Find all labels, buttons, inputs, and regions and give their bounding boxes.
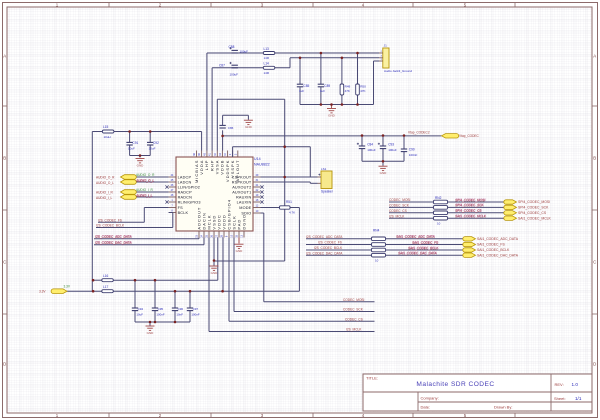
wire pin VDDB up through C86: [222, 130, 224, 150]
svg-text:SAI1_CODEC_ADC_DATA: SAI1_CODEC_ADC_DATA: [397, 235, 436, 239]
svg-text:SAI1_CODEC_FS: SAI1_CODEC_FS: [413, 240, 439, 244]
svg-text:C95: C95: [158, 307, 164, 311]
svg-text:14R: 14R: [264, 71, 270, 75]
svg-text:CODEC_SCK: CODEC_SCK: [343, 308, 364, 312]
capacitor C90: [401, 147, 418, 157]
label CODEC_MOSI: [343, 298, 365, 302]
svg-text:100nF: 100nF: [156, 312, 164, 316]
wire PAD to GND: [238, 238, 240, 244]
svg-text:AUDIO_O_L: AUDIO_O_L: [96, 181, 114, 185]
svg-text:C91: C91: [132, 141, 138, 145]
resistor network RN2: [434, 196, 448, 226]
svg-text:14R: 14R: [264, 56, 270, 60]
svg-text:AUDIO_I_L: AUDIO_I_L: [137, 193, 154, 197]
ground GND under C91 C92: [136, 159, 145, 168]
svg-text:2: 2: [229, 153, 232, 155]
svg-text:C94: C94: [138, 307, 144, 311]
capacitor C88: [229, 45, 249, 54]
ground GND bottom caps: [146, 326, 155, 335]
svg-text:100uF: 100uF: [230, 72, 239, 76]
svg-text:L17: L17: [103, 285, 109, 289]
capacitor C84: [357, 142, 376, 152]
label I2S_MCLK: [346, 328, 362, 332]
capacitor C97: [187, 307, 200, 317]
svg-text:1/1: 1/1: [575, 396, 582, 401]
svg-text:RAUXIN: RAUXIN: [236, 195, 252, 199]
svg-text:NAU8822: NAU8822: [254, 162, 270, 166]
svg-text:3.3V: 3.3V: [64, 284, 71, 288]
svg-text:B: B: [593, 156, 596, 161]
svg-text:24: 24: [201, 234, 204, 237]
wire CODEC_CS route: [229, 238, 375, 322]
svg-text:C89: C89: [324, 84, 330, 88]
wire RSPKOUT to speaker: [261, 182, 318, 183]
resistor network RN4: [372, 229, 386, 263]
svg-text:4.7K: 4.7K: [289, 211, 295, 215]
wire Vtap net y135.9: [223, 135, 442, 137]
svg-text:C90: C90: [409, 147, 415, 151]
labels CODEC SPI left of RN2: [389, 198, 434, 218]
svg-text:C97: C97: [193, 307, 199, 311]
svg-text:23: 23: [196, 234, 199, 237]
wire VSSD pin down to y261: [213, 238, 215, 266]
svg-text:100uF: 100uF: [388, 148, 397, 152]
capacitor C94: [132, 307, 144, 317]
svg-text:AUDIO_O_L: AUDIO_O_L: [137, 178, 155, 182]
wire cap C85 stem: [299, 58, 301, 84]
wire Vtap cap ground rail: [362, 160, 404, 162]
label Vtap_CODEC right: [459, 134, 480, 138]
svg-text:I2S_CODEC_FS: I2S_CODEC_FS: [98, 218, 122, 222]
wire C92 stem: [149, 132, 151, 156]
svg-text:26: 26: [211, 234, 214, 237]
svg-text:10: 10: [231, 234, 234, 237]
wire y58 to audio jack pin2: [290, 57, 379, 59]
svg-text:C93: C93: [388, 142, 394, 146]
svg-text:L13: L13: [264, 47, 270, 51]
capacitor C87: [219, 62, 238, 77]
svg-text:SPI4_CODEC_MOSI: SPI4_CODEC_MOSI: [518, 200, 550, 204]
svg-text:LAUXIN: LAUXIN: [237, 200, 252, 204]
wire MODE to R51: [261, 207, 300, 209]
svg-text:GND: GND: [236, 249, 244, 253]
svg-text:CODEC_MOSI: CODEC_MOSI: [343, 298, 365, 302]
wire VDDD pin down: [222, 238, 224, 292]
svg-text:SAI1_CODEC_ADC_DATA: SAI1_CODEC_ADC_DATA: [477, 237, 519, 241]
svg-text:VDDA: VDDA: [199, 160, 204, 175]
svg-text:LADCN: LADCN: [178, 180, 192, 184]
wire cap C89 bottom: [320, 87, 322, 104]
ground GND near C86: [244, 120, 253, 129]
svg-text:I2S_MCLK: I2S_MCLK: [346, 328, 362, 332]
inductor L16: [102, 274, 114, 282]
svg-text:100nF: 100nF: [409, 153, 418, 157]
svg-text:RN2: RN2: [435, 196, 442, 200]
svg-text:FS: FS: [178, 206, 183, 210]
wire cap C89 stem: [320, 53, 322, 84]
wire AUDIO_O_L: [134, 181, 169, 183]
svg-text:RADCN: RADCN: [178, 195, 192, 199]
wire MICBIAS vertical to pin VDDA: [201, 132, 203, 151]
svg-text:28: 28: [221, 234, 224, 237]
svg-text:SPI4_CODEC_SCK: SPI4_CODEC_SCK: [518, 206, 549, 210]
svg-text:47K: 47K: [345, 89, 350, 93]
svg-text:A: A: [593, 54, 596, 59]
wire GND_B stem: [213, 261, 215, 266]
svg-text:C: C: [3, 260, 6, 265]
svg-text:44: 44: [224, 153, 227, 156]
svg-text:C84: C84: [367, 142, 373, 146]
wire C90 stem: [403, 136, 405, 162]
wire I2S_CODEC_ADC_DATA: [94, 238, 199, 239]
wire 3.3V from connector: [67, 290, 102, 292]
wire C88 corner down to pin LHP: [206, 53, 208, 151]
svg-text:2: 2: [381, 51, 383, 53]
wire 3.3V riser x92: [91, 132, 93, 292]
wire C88 net y53 to audio jack: [207, 52, 379, 54]
connector AUDIO_I: [96, 190, 136, 200]
capacitor C89: [318, 84, 331, 93]
wire I2S_MCLK route: [209, 238, 375, 332]
speaker LS1: [318, 167, 334, 194]
svg-text:R51: R51: [286, 200, 292, 204]
label CODEC_CS: [345, 317, 363, 321]
ground GND analog rail: [327, 105, 336, 118]
svg-text:42: 42: [214, 153, 217, 156]
svg-text:AUDIO_O_R: AUDIO_O_R: [96, 176, 115, 180]
svg-text:SAI1_CODEC_FS: SAI1_CODEC_FS: [477, 243, 505, 247]
wire CODEC_MOSI route: [261, 213, 375, 302]
connector 3.3V: [39, 284, 71, 293]
wire analog ground rail y104.5: [300, 104, 374, 106]
svg-text:100uF: 100uF: [367, 148, 376, 152]
wire R49 top: [341, 58, 343, 84]
svg-text:L16: L16: [103, 274, 109, 278]
svg-text:DGND: DGND: [241, 214, 246, 230]
resistor R51: [280, 200, 296, 215]
capacitor C86: [219, 115, 248, 130]
svg-text:SAI1_CODEC_BCLK: SAI1_CODEC_BCLK: [409, 246, 440, 250]
svg-text:AUDIO_I_L: AUDIO_I_L: [96, 196, 113, 200]
wire R49 bottom: [341, 95, 343, 105]
svg-text:SAI1_CODEC_BCLK: SAI1_CODEC_BCLK: [477, 248, 510, 252]
capacitor C91: [126, 141, 138, 150]
resistor R49: [340, 84, 350, 95]
svg-text:C86: C86: [228, 126, 234, 130]
svg-text:AUXOUT2: AUXOUT2: [232, 185, 251, 189]
svg-text:43: 43: [219, 153, 222, 156]
svg-text:AUDIO_I_R: AUDIO_I_R: [136, 188, 154, 192]
svg-text:Vtap_CODEC: Vtap_CODEC: [459, 134, 480, 138]
svg-text:47K: 47K: [360, 89, 365, 93]
title block: [363, 374, 592, 411]
svg-text:RN4: RN4: [373, 229, 380, 233]
svg-text:L14: L14: [264, 62, 270, 66]
svg-text:I2S_CODEC_ADC_DATA: I2S_CODEC_ADC_DATA: [306, 235, 343, 239]
svg-text:3: 3: [381, 56, 383, 58]
svg-text:LLIN/GPIO2: LLIN/GPIO2: [178, 185, 200, 189]
wire ground loop bottom y261: [213, 260, 284, 262]
U14 right pins LSPKOUT RSPKOUT AUXOUT2 AUXOUT1 RAUXIN LAUXIN MODE SDIO: [232, 174, 261, 215]
svg-text:SPI4_CODEC_CS: SPI4_CODEC_CS: [456, 209, 482, 213]
connector J1 AudioJack3_Ground: [379, 44, 412, 73]
labels I2S_CODEC left of RN4: [306, 235, 372, 255]
svg-text:U14: U14: [254, 157, 261, 161]
svg-text:BCLK: BCLK: [178, 211, 189, 215]
wire R50 top: [357, 53, 359, 84]
svg-text:10uF: 10uF: [149, 146, 156, 150]
wire stem to GND bottom: [149, 322, 151, 326]
svg-text:AUDIO_O_R: AUDIO_O_R: [136, 173, 155, 177]
capacitor C92: [147, 141, 159, 150]
ground GND under IC VSSD: [210, 266, 219, 275]
wire I2S_CODEC_DAC_DATA: [94, 238, 204, 245]
svg-text:9: 9: [226, 235, 229, 237]
svg-text:C92: C92: [153, 141, 159, 145]
svg-text:SAI1_CODEC_MCLK: SAI1_CODEC_MCLK: [456, 214, 488, 218]
wire R50 bottom: [357, 95, 359, 105]
inductor L13: [263, 47, 275, 60]
svg-text:GND: GND: [211, 271, 219, 275]
svg-text:Date:: Date:: [421, 405, 431, 410]
svg-text:41: 41: [209, 153, 212, 156]
svg-text:39: 39: [198, 153, 201, 156]
svg-text:CODEC_CS: CODEC_CS: [389, 209, 407, 213]
label AUDIO_O_R green: [136, 173, 155, 177]
capacitor C95: [152, 307, 165, 317]
wire AUDIO_I_L: [134, 196, 169, 198]
svg-text:GND: GND: [137, 164, 145, 168]
inductor L17: [102, 285, 114, 293]
svg-text:1.0: 1.0: [572, 382, 579, 387]
resistor R50: [356, 84, 366, 95]
svg-text:C96: C96: [178, 307, 184, 311]
wire bottom cap ground rail: [135, 321, 190, 323]
svg-text:REV:: REV:: [555, 382, 564, 387]
svg-text:I2S_CODEC_DAC_DATA: I2S_CODEC_DAC_DATA: [96, 241, 133, 245]
wire stem to GND symbol: [139, 156, 141, 158]
svg-text:1uF: 1uF: [299, 89, 304, 93]
wire C84 stem: [361, 136, 363, 162]
svg-text:100nF: 100nF: [191, 312, 199, 316]
wire MICBIAS net horizontal: [92, 131, 201, 133]
svg-text:MODE: MODE: [239, 206, 251, 210]
svg-text:L15: L15: [103, 125, 109, 129]
svg-text:GND: GND: [328, 114, 336, 118]
wire LSPKOUT to speaker: [261, 176, 318, 178]
svg-text:Drawn By:: Drawn By:: [494, 405, 512, 410]
connector Vtap_CODEC2: [442, 134, 459, 138]
svg-text:Sheet:: Sheet:: [554, 396, 566, 401]
capacitor C85: [297, 84, 310, 93]
svg-text:Audio Jack3_Ground: Audio Jack3_Ground: [384, 69, 412, 73]
capacitor C96: [172, 307, 184, 317]
U14 top pins MICBIAS VDDA LHP RHP VSSA VDDB VDDSPK VSSPK APLOUT VREF: [193, 151, 240, 184]
capacitor C93: [378, 142, 397, 152]
wire ground loop top y99: [217, 98, 284, 100]
label Vtap_CODEC2 left: [408, 131, 430, 135]
wire speaker vertical x310: [309, 147, 311, 177]
svg-text:A: A: [3, 54, 6, 59]
label I2S_CODEC_DAC_DATA left: [95, 241, 133, 246]
wire pin VSSA up to y99: [216, 99, 218, 150]
svg-text:25: 25: [206, 234, 209, 237]
no-connect marks on unused pins: [165, 185, 263, 203]
svg-text:3.3V: 3.3V: [39, 289, 46, 293]
svg-text:LS1: LS1: [321, 167, 327, 171]
svg-text:10: 10: [375, 258, 379, 262]
svg-text:Malachite SDR CODEC: Malachite SDR CODEC: [416, 381, 494, 388]
U14 bottom pins ADCOUT DACIN MCLK VSSD VDDC VDDD CSB/GPIO4 SCLK PAD DGND: [196, 199, 247, 238]
svg-text:I2S_CODEC_ADC_DATA: I2S_CODEC_ADC_DATA: [96, 235, 133, 239]
svg-text:GND: GND: [380, 171, 388, 175]
svg-text:SPI4_CODEC_SCK: SPI4_CODEC_SCK: [456, 203, 485, 207]
wire C85b stem: [382, 136, 384, 162]
svg-text:RLIN/GPIO3: RLIN/GPIO3: [178, 200, 201, 204]
wire C87 net y68 to step: [212, 67, 290, 69]
svg-text:CODEC_CS: CODEC_CS: [345, 317, 363, 321]
svg-text:AUXOUT1: AUXOUT1: [232, 190, 251, 194]
label AUDIO_I_L pink: [136, 193, 153, 198]
label I2S_CODEC_FS: [98, 218, 122, 222]
wire jack sleeve down: [374, 61, 380, 105]
wire AUDIO_I_R: [134, 191, 169, 193]
wire speaker feed y146.7: [233, 146, 311, 148]
inductor L14: [263, 62, 275, 75]
label I2S_CODEC_ADC_DATA left: [95, 235, 133, 240]
wire stem to GND: [382, 161, 384, 166]
svg-text:Vtap_CODEC2: Vtap_CODEC2: [408, 131, 430, 135]
connector AUDIO_O: [96, 175, 136, 185]
wire I2S_CODEC_FS: [98, 208, 169, 223]
svg-text:Speaker: Speaker: [321, 189, 334, 193]
connector pins SPI4_CODEC with labels: [448, 198, 552, 221]
svg-text:APLOUT: APLOUT: [235, 160, 240, 182]
wire rail L17 y291: [113, 290, 299, 292]
svg-text:10uF: 10uF: [136, 312, 143, 316]
svg-text:C: C: [593, 260, 596, 265]
wire rail L16 y280: [92, 238, 218, 281]
svg-text:GND: GND: [147, 331, 155, 335]
label AUDIO_O_L pink: [136, 178, 155, 183]
wire CODEC_SCK route: [234, 238, 375, 312]
ground GND Vtap caps: [379, 166, 388, 175]
wire C91 C92 ground rail: [130, 155, 151, 157]
wire AUDIO_O_R: [134, 176, 169, 178]
svg-text:J1: J1: [384, 44, 388, 48]
svg-text:100uF: 100uF: [240, 50, 249, 54]
svg-text:D: D: [593, 362, 596, 367]
svg-text:RADCP: RADCP: [178, 190, 192, 194]
svg-text:27: 27: [216, 234, 219, 237]
svg-text:C87: C87: [219, 63, 225, 67]
svg-text:Company:: Company:: [421, 395, 439, 400]
svg-text:I2S_CODEC_BCLK: I2S_CODEC_BCLK: [96, 224, 125, 228]
U14 left pins LADCP LADCN LLIN/GPIO2 RADCP RADCN RLIN/GPIO3 FS BCLK: [169, 174, 201, 215]
wire C87 corner down to pin RHP: [211, 68, 213, 151]
svg-text:AUDIO_I_R: AUDIO_I_R: [96, 191, 114, 195]
inductor L15: [102, 125, 114, 139]
wire pin VSSPK up: [232, 147, 234, 157]
svg-text:C88: C88: [229, 45, 235, 49]
svg-text:SAI1_CODEC_DAC_DATA: SAI1_CODEC_DAC_DATA: [399, 251, 438, 255]
svg-text:33: 33: [236, 234, 239, 237]
label AUDIO_I_R green: [136, 188, 154, 192]
svg-text:3: 3: [234, 153, 237, 155]
op-amp U14 NAU8822 codec body: [176, 157, 270, 231]
wire I2S_CODEC_BCLK: [96, 213, 173, 228]
wire cap C85 bottom: [299, 87, 301, 104]
svg-text:10uH: 10uH: [104, 135, 111, 139]
label CODEC_SCK: [343, 308, 364, 312]
svg-text:GND: GND: [245, 125, 253, 129]
wire bottom cap stems: [135, 280, 190, 322]
wire R51 pulldown x300: [298, 208, 300, 292]
connector pins SAI1_CODEC with labels: [386, 235, 519, 258]
svg-text:B: B: [3, 156, 6, 161]
svg-text:13: 13: [241, 234, 244, 237]
wire C91 stem: [129, 132, 131, 156]
svg-text:D: D: [3, 362, 6, 367]
svg-text:10: 10: [437, 222, 441, 226]
svg-text:SAI1_CODEC_DAC_DATA: SAI1_CODEC_DAC_DATA: [477, 253, 519, 257]
label I2S_CODEC_BCLK: [96, 224, 125, 228]
wire step up x290: [289, 58, 291, 68]
svg-text:SPI4_CODEC_MOSI: SPI4_CODEC_MOSI: [456, 198, 486, 202]
svg-text:10uF: 10uF: [128, 146, 135, 150]
svg-text:SPI4_CODEC_CS: SPI4_CODEC_CS: [518, 211, 547, 215]
svg-text:SAI1_CODEC_MCLK: SAI1_CODEC_MCLK: [518, 216, 552, 220]
ground GND under IC PAD: [235, 244, 244, 253]
svg-text:38: 38: [193, 153, 196, 156]
svg-text:10nF: 10nF: [176, 312, 183, 316]
svg-text:1uF: 1uF: [320, 89, 325, 93]
wire ground loop right x285: [284, 99, 286, 261]
svg-text:40: 40: [204, 153, 207, 156]
svg-text:LADCP: LADCP: [178, 175, 192, 179]
svg-text:C85: C85: [303, 84, 309, 88]
svg-text:TITLE:: TITLE:: [366, 376, 378, 381]
